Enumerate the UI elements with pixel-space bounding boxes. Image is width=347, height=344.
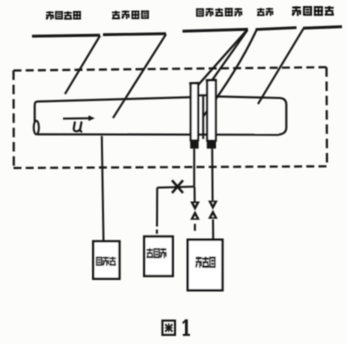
valve X on branch — [172, 180, 183, 193]
impulse line right tap — [211, 149, 213, 201]
line pipe to thermometer box — [102, 136, 104, 241]
pipe mouth ellipse — [34, 121, 39, 135]
orifice flange right top cap — [206, 79, 217, 82]
leader line 1 — [65, 36, 100, 94]
label underline 5 — [303, 27, 342, 29]
flange base right — [207, 140, 216, 149]
orifice flange right — [207, 80, 216, 141]
label underline 3 — [183, 29, 249, 31]
leader line 5 — [258, 29, 304, 105]
flow velocity symbol u — [74, 122, 82, 132]
pressure gauge box — [144, 237, 173, 277]
leader line 3b — [212, 30, 248, 81]
caption numeral 1 — [183, 319, 190, 335]
valve V2 — [208, 201, 218, 219]
dashed enclosure box bottom — [14, 166, 328, 168]
thermometer box — [93, 241, 119, 278]
caption glyph tu (figure) — [162, 321, 175, 335]
pressure gauge text (3 chars) — [147, 248, 167, 258]
pipe top wall left segment — [37, 97, 191, 101]
pipe top wall right segment and right end — [216, 96, 287, 134]
label text: downstream pipe (4 chars) — [292, 6, 334, 16]
flow velocity arrow — [63, 117, 89, 119]
orifice flange left top cap — [189, 82, 199, 85]
label text: measured fluid (4 chars) — [112, 10, 149, 19]
valve V1 — [190, 202, 200, 220]
pipe bottom wall — [37, 133, 279, 136]
label underline 1 — [32, 35, 100, 36]
label underline 2 — [103, 34, 166, 35]
orifice plate — [202, 96, 204, 140]
orifice flange left — [191, 83, 198, 140]
branch drop to pressure gauge — [156, 188, 158, 227]
label underline 4 — [256, 28, 297, 30]
pipe left end — [35, 102, 37, 122]
label text: orifice plate (2 chars) — [257, 8, 273, 16]
leader line 2 — [113, 34, 166, 118]
dashes below valve V1 — [194, 224, 196, 231]
dashed enclosure box right — [325, 67, 328, 166]
dashed enclosure box top — [14, 67, 327, 70]
leader line 3a — [195, 30, 247, 89]
differential pressure gauge box — [188, 240, 223, 291]
thermometer box text (3 chars) — [96, 257, 116, 266]
dashed enclosure box left — [12, 71, 15, 169]
leader line 4 — [204, 30, 257, 116]
differential pressure gauge text (3 chars) — [195, 257, 215, 268]
line below valve V2 — [212, 220, 214, 240]
flange base left — [190, 140, 198, 149]
branch drop dashes — [156, 230, 158, 234]
label text: upstream pipe (4 chars) — [46, 11, 81, 20]
impulse line left tap lower — [194, 187, 196, 202]
impulse branch horizontal — [157, 187, 194, 188]
orifice plate tick — [199, 94, 208, 96]
impulse line left tap — [193, 149, 195, 187]
label text: flange pressure taps (5 chars) — [196, 8, 242, 17]
